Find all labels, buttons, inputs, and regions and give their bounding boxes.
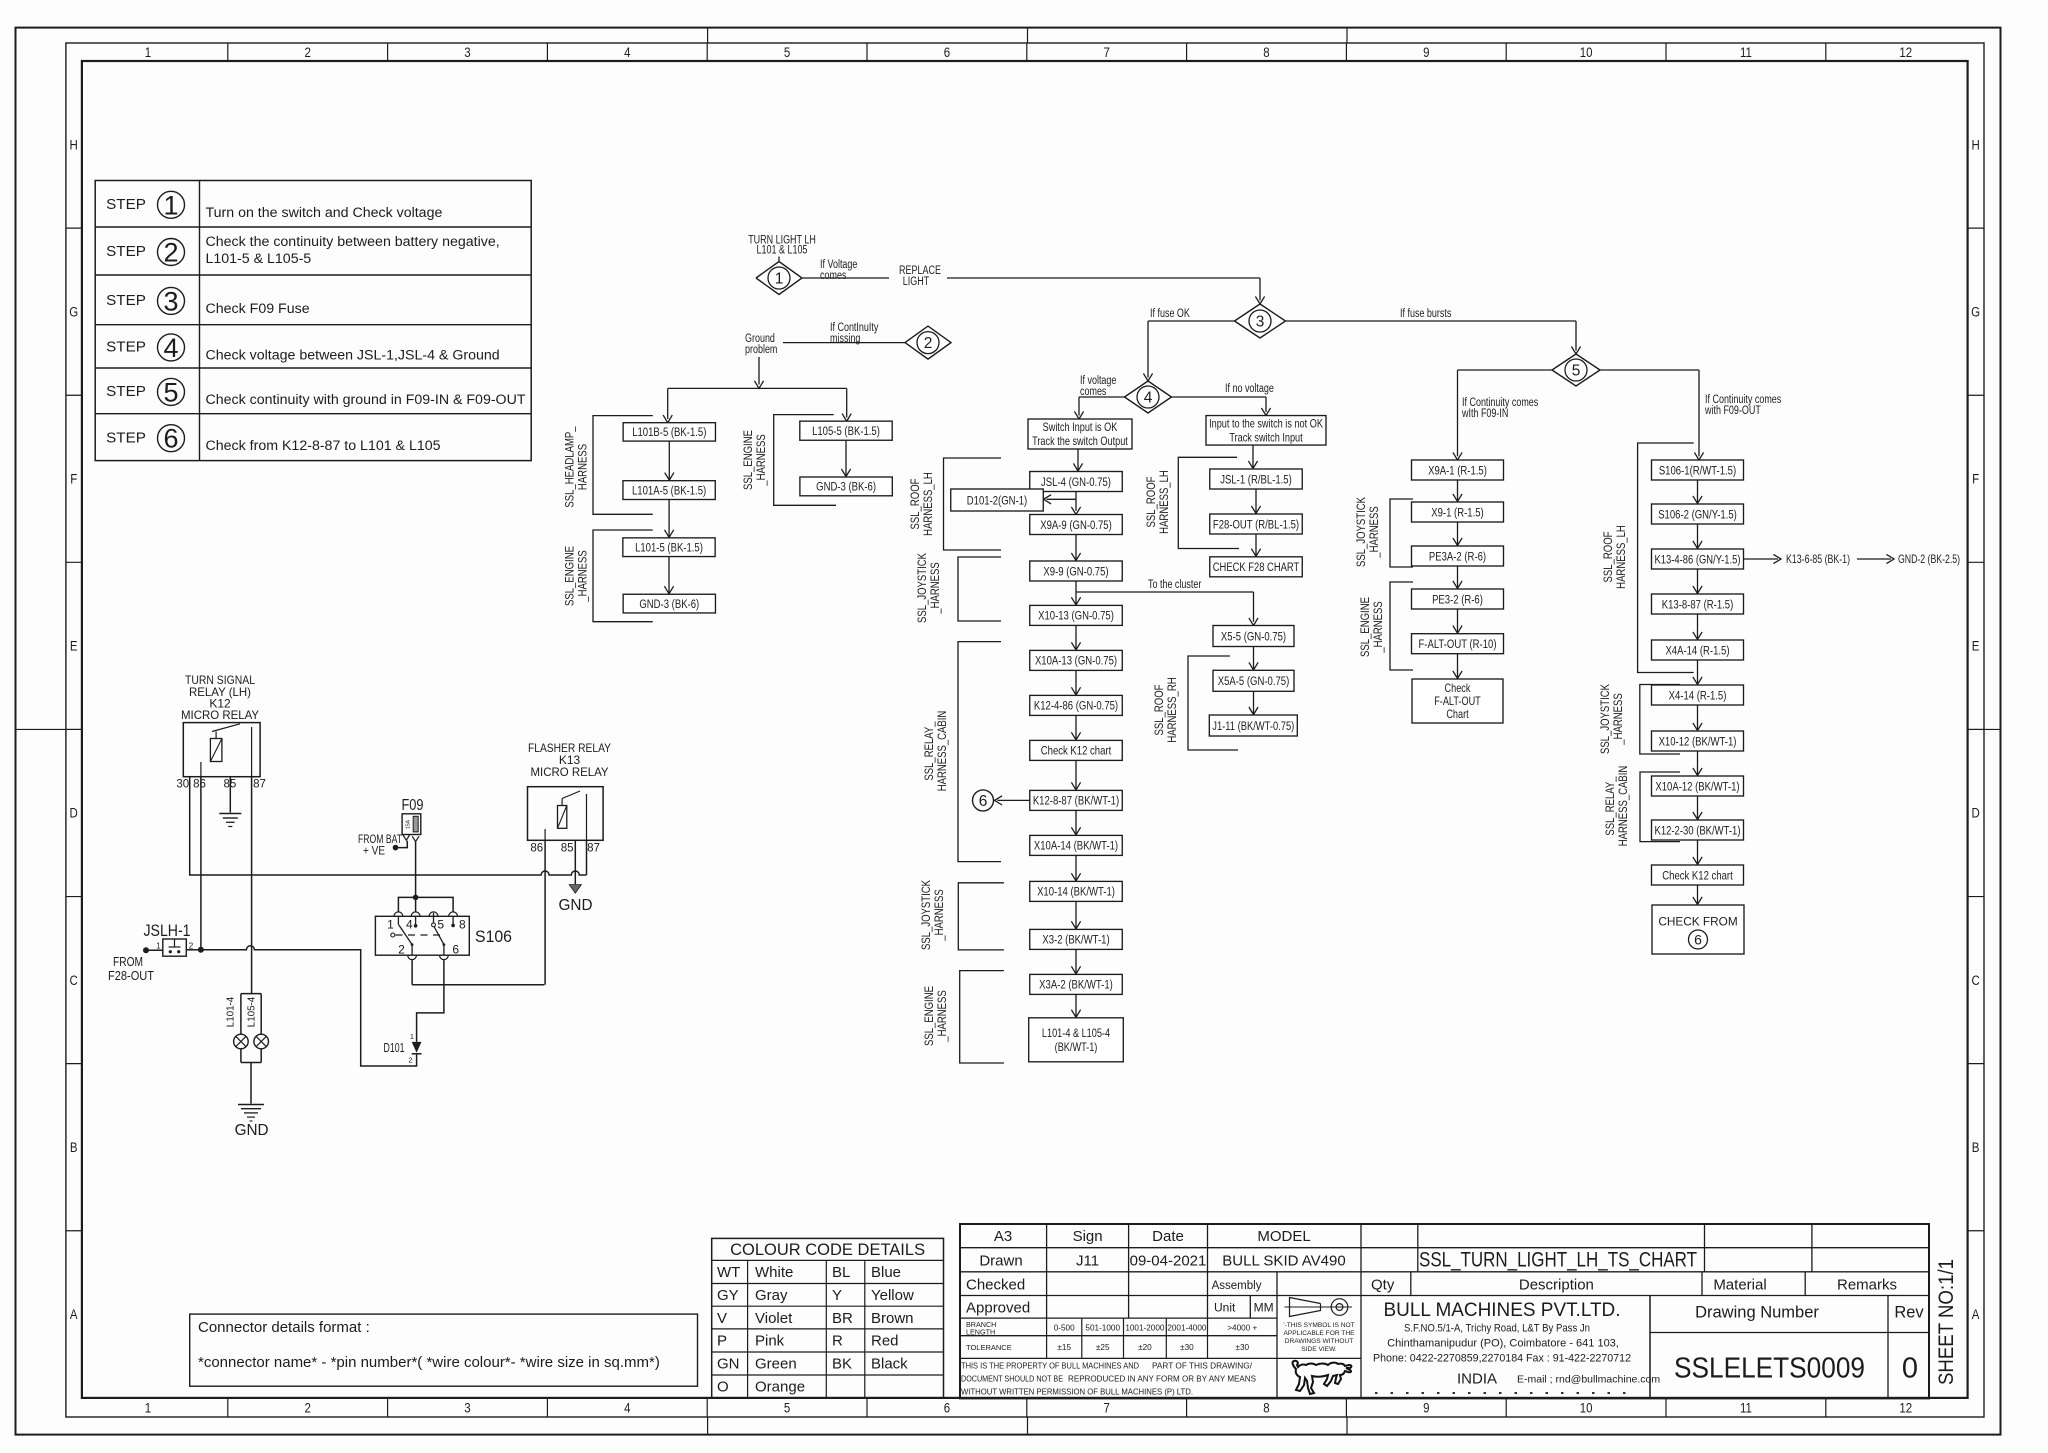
wire K12 pin 85 to ground	[229, 777, 231, 813]
svg-text:2: 2	[163, 238, 178, 268]
svg-text:1: 1	[145, 1401, 151, 1416]
svg-text:WT: WT	[717, 1264, 740, 1281]
svg-text:WITHOUT WRITTEN PERMISSION OF: WITHOUT WRITTEN PERMISSION OF BULL MACHI…	[961, 1387, 1193, 1397]
svg-text:4: 4	[406, 918, 413, 932]
svg-text:(BK/WT-1): (BK/WT-1)	[1055, 1040, 1098, 1054]
wire arrow to X9A-9 with D101-2 tap	[1075, 492, 1077, 511]
svg-text:X9A-1 (R-1.5): X9A-1 (R-1.5)	[1428, 463, 1487, 477]
relay K12 contact blade	[215, 732, 217, 739]
wire JSLH-1 pin 2 junction dot	[186, 949, 201, 951]
zone column dividers top and bottom bands	[227, 43, 229, 61]
svg-text:6: 6	[163, 424, 178, 454]
svg-text:BULL SKID AV490: BULL SKID AV490	[1222, 1253, 1345, 1270]
svg-text:C: C	[70, 973, 78, 988]
wire arrow	[1697, 751, 1699, 776]
svg-text:SSL_RELAY_: SSL_RELAY_	[1605, 776, 1617, 836]
svg-text:2: 2	[305, 45, 311, 60]
svg-text:6: 6	[944, 1401, 950, 1416]
wire arrow	[1697, 705, 1699, 731]
wire S106 pin 2 down	[411, 945, 413, 956]
svg-text:0: 0	[1902, 1353, 1918, 1385]
flow box X3-2	[1030, 929, 1123, 949]
svg-text:X3A-2 (BK/WT-1): X3A-2 (BK/WT-1)	[1039, 978, 1113, 992]
zone row dividers left and right bands	[66, 227, 82, 229]
svg-text:L101 & L105: L101 & L105	[757, 245, 808, 257]
svg-text:THIS IS THE PROPERTY OF BULL M: THIS IS THE PROPERTY OF BULL MACHINES AN…	[961, 1361, 1139, 1371]
relay K12 body	[183, 723, 260, 777]
svg-text:V: V	[717, 1310, 727, 1327]
relay K13 contact blade	[561, 799, 563, 806]
flow box K12-4-86	[1030, 695, 1123, 715]
svg-text:4: 4	[163, 333, 178, 363]
svg-text:GND-3 (BK-6): GND-3 (BK-6)	[816, 480, 876, 494]
svg-text:6: 6	[1694, 932, 1702, 948]
flow box F-ALT-OUT	[1412, 634, 1504, 654]
svg-text:3: 3	[464, 45, 470, 60]
wire arrow	[668, 500, 670, 538]
flow box X5-5	[1213, 626, 1294, 647]
svg-text:_HARNESS: _HARNESS	[930, 562, 942, 615]
svg-text:MICRO RELAY: MICRO RELAY	[531, 765, 609, 779]
wire K13 pin 85 to ground	[574, 840, 576, 884]
svg-text:K13-8-87 (R-1.5): K13-8-87 (R-1.5)	[1662, 597, 1734, 611]
wire arrow	[1697, 524, 1699, 549]
svg-text:_HARNESS: _HARNESS	[1373, 601, 1385, 654]
relay K12 coil	[210, 739, 222, 762]
decision diamond 4	[1125, 381, 1172, 413]
svg-text:SSL_HEADLAMP_: SSL_HEADLAMP_	[565, 426, 577, 508]
svg-text:MICRO RELAY: MICRO RELAY	[181, 708, 259, 722]
svg-text:GND: GND	[235, 1122, 269, 1139]
wire arrow	[1255, 489, 1257, 514]
svg-text:30: 30	[176, 779, 189, 791]
harness bracket SSL_JOYSTICK_HARNESS main chain	[958, 557, 1001, 621]
svg-text:Check K12 chart: Check K12 chart	[1662, 868, 1733, 882]
svg-text:with F09-OUT: with F09-OUT	[1704, 405, 1761, 417]
ground symbol lamps	[238, 1104, 264, 1106]
svg-text:Switch Input is OK: Switch Input is OK	[1043, 420, 1118, 434]
wire arrow	[1255, 534, 1257, 556]
title block grid	[960, 1224, 1929, 1398]
flow box X9-1	[1412, 502, 1504, 522]
svg-text:STEP: STEP	[106, 243, 146, 260]
wire arrow	[845, 440, 847, 476]
wire arrow	[1075, 901, 1077, 929]
svg-text:SSL_JOYSTICK: SSL_JOYSTICK	[917, 553, 929, 623]
svg-text:X10-14 (BK/WT-1): X10-14 (BK/WT-1)	[1037, 885, 1115, 899]
wire arrow	[1457, 566, 1459, 589]
wire arrow	[1457, 654, 1459, 679]
svg-text:BL: BL	[832, 1264, 850, 1281]
wire arrow	[1075, 949, 1077, 974]
flow box X9A-1	[1412, 460, 1504, 480]
flow box D101-2	[951, 489, 1044, 511]
harness bracket SSL_ENGINE_HARNESS lower	[960, 971, 1004, 1063]
svg-text:5: 5	[1572, 362, 1581, 379]
flow box K12-2-30	[1652, 820, 1744, 840]
svg-text:Turn on the switch and Check v: Turn on the switch and Check voltage	[206, 205, 443, 221]
flow box X10A-12	[1652, 776, 1744, 796]
svg-text:SIDE VIEW.: SIDE VIEW.	[1301, 1346, 1337, 1353]
svg-text:1: 1	[156, 942, 161, 951]
svg-text:Assembly: Assembly	[1212, 1280, 1262, 1292]
svg-text:87: 87	[587, 843, 600, 855]
svg-text:4: 4	[624, 1401, 631, 1416]
svg-text:_HARNESS: _HARNESS	[1613, 693, 1625, 746]
flow box Check	[1652, 865, 1744, 885]
svg-text:STEP: STEP	[106, 339, 146, 356]
decision diamond 5	[1552, 354, 1600, 386]
svg-text:B: B	[70, 1140, 78, 1155]
svg-text:Chinthamanipudur (PO), Coimbat: Chinthamanipudur (PO), Coimbatore - 641 …	[1387, 1338, 1619, 1350]
svg-text:BULL MACHINES PVT.LTD.: BULL MACHINES PVT.LTD.	[1384, 1299, 1621, 1321]
svg-text:Checked: Checked	[966, 1277, 1025, 1294]
fuse F09 pin chevrons	[403, 835, 410, 840]
svg-text:INDIA: INDIA	[1457, 1371, 1497, 1388]
svg-text:86: 86	[193, 779, 206, 791]
svg-text:K12-8-87 (BK/WT-1): K12-8-87 (BK/WT-1)	[1033, 794, 1119, 808]
svg-text:_HARNESS: _HARNESS	[756, 434, 768, 487]
wire arrow K13-4-86 to K13-6-85	[1744, 558, 1779, 560]
svg-text:SSL_ROOF: SSL_ROOF	[1603, 532, 1615, 583]
wire arrow	[1075, 994, 1077, 1017]
svg-text:0-500: 0-500	[1054, 1324, 1075, 1333]
svg-text:Check: Check	[1445, 681, 1471, 695]
svg-text:_HARNESS: _HARNESS	[1369, 506, 1381, 559]
svg-text:Qty: Qty	[1371, 1277, 1395, 1294]
svg-text:A: A	[1972, 1307, 1980, 1322]
svg-text:HARNESS_LH: HARNESS_LH	[923, 472, 935, 536]
svg-text:HARNESS_CABIN: HARNESS_CABIN	[937, 711, 949, 792]
svg-text:To the cluster: To the cluster	[1148, 579, 1201, 591]
wire arrow K13-6-85 to GND-2	[1857, 558, 1891, 560]
svg-text:12: 12	[1899, 1401, 1912, 1416]
wire arrow to step 6 circle	[998, 799, 1030, 801]
svg-text:Check the continuity between b: Check the continuity between battery neg…	[206, 234, 500, 250]
svg-text:1001-2000: 1001-2000	[1125, 1324, 1165, 1333]
svg-text:O: O	[717, 1379, 729, 1396]
wire JSLH-1 node to D101 cathode	[201, 946, 417, 1066]
harness bracket SSL_ROOF_HARNESS_LH F09-OUT column	[1638, 443, 1694, 673]
svg-text:5: 5	[437, 918, 444, 932]
svg-text:STEP: STEP	[106, 292, 146, 309]
svg-text:±15: ±15	[1057, 1343, 1071, 1352]
wire arrow	[1457, 522, 1459, 546]
svg-text:GN: GN	[717, 1356, 740, 1373]
svg-text:SSL_ROOF: SSL_ROOF	[910, 479, 922, 530]
flow box Input to the switch is not OK	[1206, 416, 1326, 446]
flow box X9A-9	[1030, 515, 1123, 535]
flow box S106-1(R/WT-1.5)	[1652, 460, 1744, 480]
svg-text:15A: 15A	[406, 819, 412, 829]
svg-text:HARNESS_LH: HARNESS_LH	[1159, 470, 1171, 534]
svg-text:DRAWINGS WITHOUT: DRAWINGS WITHOUT	[1285, 1338, 1354, 1345]
flow box X4A-14	[1652, 640, 1744, 660]
svg-text:GND-2 (BK-2.5): GND-2 (BK-2.5)	[1898, 552, 1960, 566]
svg-text:SSL_ENGINE: SSL_ENGINE	[1360, 597, 1372, 657]
relay K13 coil	[558, 806, 567, 829]
svg-text:Drawing Number: Drawing Number	[1695, 1304, 1819, 1322]
svg-text:D: D	[70, 806, 78, 821]
flow box Switch Input is OK	[1028, 419, 1132, 449]
fuse F09 body	[402, 814, 421, 835]
svg-text:F: F	[1972, 471, 1979, 486]
svg-text:G: G	[1971, 304, 1980, 319]
svg-text:11: 11	[1740, 1401, 1752, 1416]
wire arrow	[1697, 660, 1699, 685]
wire arrow	[1697, 569, 1699, 594]
svg-text:Check from K12-8-87 to L101 &: Check from K12-8-87 to L101 & L105	[206, 438, 441, 454]
svg-text:8: 8	[1263, 1401, 1269, 1416]
flow box X9-9	[1030, 561, 1123, 581]
svg-text:'-THIS SYMBOL IS NOT: '-THIS SYMBOL IS NOT	[1283, 1322, 1354, 1329]
svg-text:Gray: Gray	[755, 1287, 788, 1304]
switch S106 connector arcs top	[394, 912, 403, 916]
svg-text:2: 2	[408, 1056, 412, 1065]
svg-text:_HARNESS: _HARNESS	[937, 990, 949, 1043]
wire branch to the cluster	[1076, 591, 1254, 593]
wire arrow	[1253, 691, 1255, 714]
switch S106 pin stubs inside	[397, 916, 399, 924]
svg-text:5: 5	[784, 45, 790, 60]
svg-text:F-ALT-OUT: F-ALT-OUT	[1434, 694, 1481, 708]
lamp L105-4 bulb	[254, 1034, 269, 1049]
node battery positive dot	[393, 845, 399, 851]
svg-text:Description: Description	[1519, 1277, 1594, 1294]
decision diamond 2	[905, 326, 951, 359]
wire arrow	[1457, 609, 1459, 633]
svg-text:MODEL: MODEL	[1257, 1228, 1310, 1245]
svg-text:Check K12 chart: Check K12 chart	[1041, 744, 1112, 758]
svg-text:1: 1	[410, 1032, 414, 1041]
svg-text:Drawn: Drawn	[979, 1253, 1022, 1270]
svg-text:E-mail ; rnd@bullmachine.com: E-mail ; rnd@bullmachine.com	[1517, 1374, 1660, 1386]
svg-text:Track the switch Output: Track the switch Output	[1032, 434, 1128, 448]
svg-text:If fuse OK: If fuse OK	[1150, 308, 1190, 320]
svg-text:Pink: Pink	[755, 1333, 785, 1350]
svg-text:Track switch Input: Track switch Input	[1229, 430, 1303, 444]
svg-text:FROM: FROM	[113, 955, 143, 969]
projection symbol	[1290, 1298, 1321, 1317]
svg-text:X10A-13 (GN-0.75): X10A-13 (GN-0.75)	[1035, 654, 1117, 668]
diode D101	[412, 1042, 422, 1053]
harness bracket SSL_JOYSTICK_HARNESS F09-IN column	[1390, 499, 1413, 567]
svg-text:8: 8	[1263, 45, 1269, 60]
switch S106 body	[375, 916, 469, 955]
company block bottom dots	[1375, 1392, 1636, 1394]
harness bracket SSL_ENGINE_HARNESS left lower	[593, 530, 653, 622]
svg-text:K13-4-86 (GN/Y-1.5): K13-4-86 (GN/Y-1.5)	[1655, 552, 1741, 566]
svg-text:S106-1(R/WT-1.5): S106-1(R/WT-1.5)	[1659, 463, 1736, 477]
svg-text:BK: BK	[832, 1356, 852, 1373]
flow box X4-14	[1652, 685, 1744, 705]
svg-text:L101-5 (BK-1.5): L101-5 (BK-1.5)	[635, 541, 703, 555]
svg-text:D101: D101	[384, 1041, 405, 1055]
svg-text:If no voltage: If no voltage	[1225, 383, 1274, 395]
svg-text:Approved: Approved	[966, 1300, 1030, 1317]
svg-text:F-ALT-OUT (R-10): F-ALT-OUT (R-10)	[1418, 637, 1496, 651]
svg-text:JSLH-1: JSLH-1	[144, 922, 191, 940]
svg-text:_HARNESS: _HARNESS	[578, 550, 590, 603]
svg-text:LENGTH: LENGTH	[966, 1328, 995, 1337]
svg-text:Rev: Rev	[1894, 1304, 1924, 1322]
svg-text:J1-11 (BK/WT-0.75): J1-11 (BK/WT-0.75)	[1212, 719, 1294, 733]
svg-text:MM: MM	[1254, 1301, 1274, 1315]
wire K13 pin 87 stub	[586, 840, 588, 875]
wire arrow	[1697, 480, 1699, 504]
svg-text:2: 2	[398, 943, 405, 957]
svg-text:P: P	[717, 1333, 727, 1350]
svg-text:4: 4	[1144, 389, 1153, 406]
wire split to L101B-5 and L105-5	[668, 387, 847, 389]
svg-text:Orange: Orange	[755, 1379, 805, 1396]
wire decision 1 to decision 3	[802, 277, 889, 279]
svg-text:85: 85	[561, 843, 574, 855]
wire arrow	[1252, 445, 1254, 469]
wire arrow	[1697, 796, 1699, 820]
svg-text:GY: GY	[717, 1287, 739, 1304]
harness bracket SSL_ENGINE_HARNESS F09-IN column	[1390, 582, 1413, 670]
svg-text:G: G	[69, 304, 78, 319]
flow box K13-4-86	[1652, 549, 1744, 569]
svg-text:PART OF THIS DRAWING/: PART OF THIS DRAWING/	[1152, 1361, 1253, 1371]
svg-text:Remarks: Remarks	[1837, 1277, 1897, 1294]
wire arrow	[668, 557, 670, 594]
flow box K13-8-87	[1652, 594, 1744, 614]
flow box JSL-4	[1030, 472, 1123, 492]
svg-text:A3: A3	[994, 1228, 1012, 1245]
svg-text:L105-5 (BK-1.5): L105-5 (BK-1.5)	[812, 424, 880, 438]
flow box PE3A-2	[1412, 546, 1504, 566]
svg-text:Sign: Sign	[1073, 1228, 1103, 1245]
wire Ground problem down arrow	[758, 357, 760, 385]
svg-text:PE3A-2 (R-6): PE3A-2 (R-6)	[1429, 549, 1486, 563]
svg-text:K13-6-85 (BK-1): K13-6-85 (BK-1)	[1786, 552, 1850, 566]
svg-text:L101-5 & L105-5: L101-5 & L105-5	[206, 251, 312, 267]
wire K12 pin 86 down to JSLH-1 node	[200, 777, 202, 950]
flow box CHECK F28 CHART	[1210, 557, 1303, 577]
svg-text:*connector name* - *pin numbe: *connector name* - *pin number*( *wire c…	[198, 1354, 660, 1371]
svg-text:Unit: Unit	[1214, 1301, 1236, 1315]
wire decision 4 to Switch Input box	[1079, 396, 1125, 398]
svg-text:STEP: STEP	[106, 196, 146, 213]
wire S106 top feeder	[398, 897, 453, 912]
connector JSLH-1 body	[163, 939, 187, 956]
svg-text:12: 12	[1899, 45, 1912, 60]
steps table frame	[95, 181, 531, 461]
flow box S106-2	[1652, 504, 1744, 524]
wire arrow	[1697, 885, 1699, 905]
flow box X3A-2	[1030, 974, 1123, 994]
svg-text:White: White	[755, 1264, 793, 1281]
svg-text:Red: Red	[871, 1333, 899, 1350]
harness bracket SSL_RELAY_HARNESS_CABIN main chain	[958, 642, 1001, 862]
wire decision 4 to Input-not-OK box	[1172, 396, 1267, 398]
wire arrow	[1075, 810, 1077, 835]
svg-text:9: 9	[1423, 45, 1429, 60]
flow box L105-5	[800, 421, 892, 440]
wire fuse F09 output to S106 feeder	[415, 842, 417, 898]
svg-text:Phone: 0422-2270859,2270184 Fa: Phone: 0422-2270859,2270184 Fax : 91-422…	[1373, 1353, 1631, 1365]
harness bracket SSL_RELAY_HARNESS_CABIN F09-OUT column	[1640, 772, 1680, 842]
harness bracket SSL_ROOF_HARNESS_LH JSL column	[1178, 457, 1239, 548]
svg-text:5: 5	[163, 377, 178, 407]
svg-text:4: 4	[624, 45, 631, 60]
svg-text:K12-2-30 (BK/WT-1): K12-2-30 (BK/WT-1)	[1655, 823, 1741, 837]
svg-text:87: 87	[253, 779, 266, 791]
svg-text:Connector details format :: Connector details format :	[198, 1319, 370, 1336]
svg-text:SSL_ROOF: SSL_ROOF	[1154, 685, 1166, 736]
svg-text:10: 10	[1580, 1401, 1593, 1416]
svg-text:S.F.NO.5/1-A, Trichy Road, L&T: S.F.NO.5/1-A, Trichy Road, L&T By Pass J…	[1404, 1323, 1590, 1335]
svg-text:10: 10	[1580, 45, 1593, 60]
wire arrow	[1697, 840, 1699, 865]
svg-text:SSL_JOYSTICK: SSL_JOYSTICK	[1600, 684, 1612, 754]
svg-text:F: F	[70, 471, 77, 486]
svg-text:TOLERANCE: TOLERANCE	[966, 1343, 1012, 1352]
wire K12 pin 87 down to lamps	[251, 777, 253, 994]
svg-text:Check voltage between JSL-1,JS: Check voltage between JSL-1,JSL-4 & Grou…	[206, 347, 500, 363]
svg-text:S106-2 (GN/Y-1.5): S106-2 (GN/Y-1.5)	[1658, 507, 1737, 521]
lamp L101-4 bulb	[234, 1034, 249, 1049]
svg-text:DOCUMENT SHOULD NOT BE: DOCUMENT SHOULD NOT BE	[961, 1374, 1063, 1384]
svg-text:SSL_ENGINE: SSL_ENGINE	[565, 546, 577, 606]
svg-text:problem: problem	[745, 344, 777, 356]
wire decision 5 to X9A-1	[1458, 369, 1553, 371]
svg-text:STEP: STEP	[106, 383, 146, 400]
svg-text:D: D	[1971, 806, 1979, 821]
svg-text:comes: comes	[1080, 386, 1107, 398]
svg-text:6: 6	[452, 943, 459, 957]
wire stub to decision 1	[778, 257, 780, 262]
svg-text:X4-14 (R-1.5): X4-14 (R-1.5)	[1669, 688, 1727, 702]
svg-text:A: A	[70, 1307, 78, 1322]
svg-text:L101-4: L101-4	[224, 997, 236, 1028]
flow box X5A-5	[1213, 670, 1294, 691]
wire arrow	[1075, 760, 1077, 790]
wire K13 pin 86 down to S106 bus	[544, 840, 546, 984]
svg-text:Black: Black	[871, 1356, 908, 1373]
svg-text:Check F09 Fuse: Check F09 Fuse	[206, 301, 310, 317]
wire arrow	[1253, 647, 1255, 671]
ground symbol K13 chassis	[569, 885, 581, 894]
flow box J1-11	[1209, 715, 1297, 736]
svg-text:9: 9	[1423, 1401, 1429, 1416]
svg-text:Green: Green	[755, 1356, 797, 1373]
bull machines logo sketch	[1293, 1361, 1352, 1394]
svg-text:501-1000: 501-1000	[1085, 1324, 1120, 1333]
svg-text:E: E	[70, 639, 78, 654]
svg-text:X9A-9 (GN-0.75): X9A-9 (GN-0.75)	[1040, 518, 1112, 532]
svg-text:7: 7	[1104, 1401, 1110, 1416]
svg-text:±20: ±20	[1138, 1343, 1152, 1352]
svg-text:±30: ±30	[1180, 1343, 1194, 1352]
flow box L101-5	[623, 538, 715, 557]
svg-text:X5A-5 (GN-0.75): X5A-5 (GN-0.75)	[1218, 674, 1290, 688]
svg-text:09-04-2021: 09-04-2021	[1130, 1253, 1207, 1270]
flow box F28-OUT	[1210, 514, 1303, 534]
svg-text:>4000 +: >4000 +	[1227, 1324, 1257, 1333]
svg-text:±30: ±30	[1235, 1343, 1249, 1352]
flow box K12-8-87	[1030, 790, 1123, 810]
svg-text:X5-5 (GN-0.75): X5-5 (GN-0.75)	[1221, 629, 1286, 643]
svg-text:Date: Date	[1152, 1228, 1184, 1245]
svg-text:11: 11	[1740, 45, 1752, 60]
flow box L101A-5	[623, 481, 715, 500]
wire arrow	[1075, 535, 1077, 561]
flow box GND-3 right	[800, 477, 892, 496]
svg-text:1: 1	[163, 190, 178, 220]
